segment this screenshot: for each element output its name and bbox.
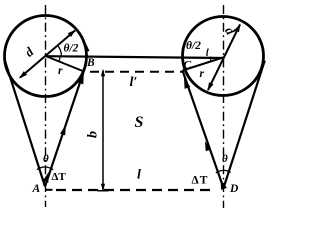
svg-text:θ/2: θ/2 (64, 43, 79, 55)
dashed line l-prime (90, 71, 183, 73)
left pulley circle (5, 16, 87, 97)
svg-text:r: r (58, 65, 63, 77)
belt line D inner (with arrows) (183, 71, 224, 189)
angle arc r (right) (209, 57, 212, 62)
tick at A on baseline (46, 189, 53, 191)
radius line r (left) (46, 56, 85, 72)
svg-text:l′: l′ (130, 75, 138, 90)
svg-text:C: C (184, 60, 192, 72)
radius line r (right) (183, 58, 224, 71)
svg-text:S: S (135, 114, 144, 131)
svg-text:l: l (137, 168, 141, 183)
right pulley circle (183, 17, 264, 96)
belt line A inner (with arrows) (45, 69, 84, 186)
svg-text:D: D (229, 183, 239, 195)
belt span line B-C (46, 56, 225, 58)
arrow Delta-T (left) (43, 172, 49, 183)
svg-text:b: b (86, 131, 101, 138)
right center line (dash-dot vertical) (223, 5, 225, 208)
angle arc theta/2 (left) (57, 45, 61, 56)
belt line D outer (right tangent) (224, 61, 265, 189)
svg-text:θ/2: θ/2 (186, 40, 201, 52)
svg-text:ΔT: ΔT (52, 171, 67, 183)
svg-text:d: d (22, 44, 37, 60)
arrow Delta-T (right) (221, 179, 227, 190)
svg-text:r: r (200, 68, 205, 80)
svg-text:ΔT: ΔT (192, 175, 209, 187)
angle arc theta/2 (right) (207, 49, 208, 57)
svg-text:θ: θ (222, 153, 228, 165)
diameter line d (right) (208, 24, 241, 92)
svg-text:A: A (32, 183, 41, 195)
belt direction arrow on left circle (85, 44, 89, 52)
svg-text:θ: θ (43, 153, 49, 165)
angle arc r (left) (58, 56, 61, 61)
dashed line l (56, 189, 215, 191)
left center line (dash-dot vertical) (45, 5, 47, 207)
belt line A outer (left tangent) (4, 59, 45, 187)
angle arc theta at A (37, 167, 53, 170)
diameter line d (left) (19, 30, 76, 79)
svg-text:B: B (86, 57, 95, 69)
dimension line b (98, 69, 109, 191)
angle arc theta at D (216, 170, 231, 173)
